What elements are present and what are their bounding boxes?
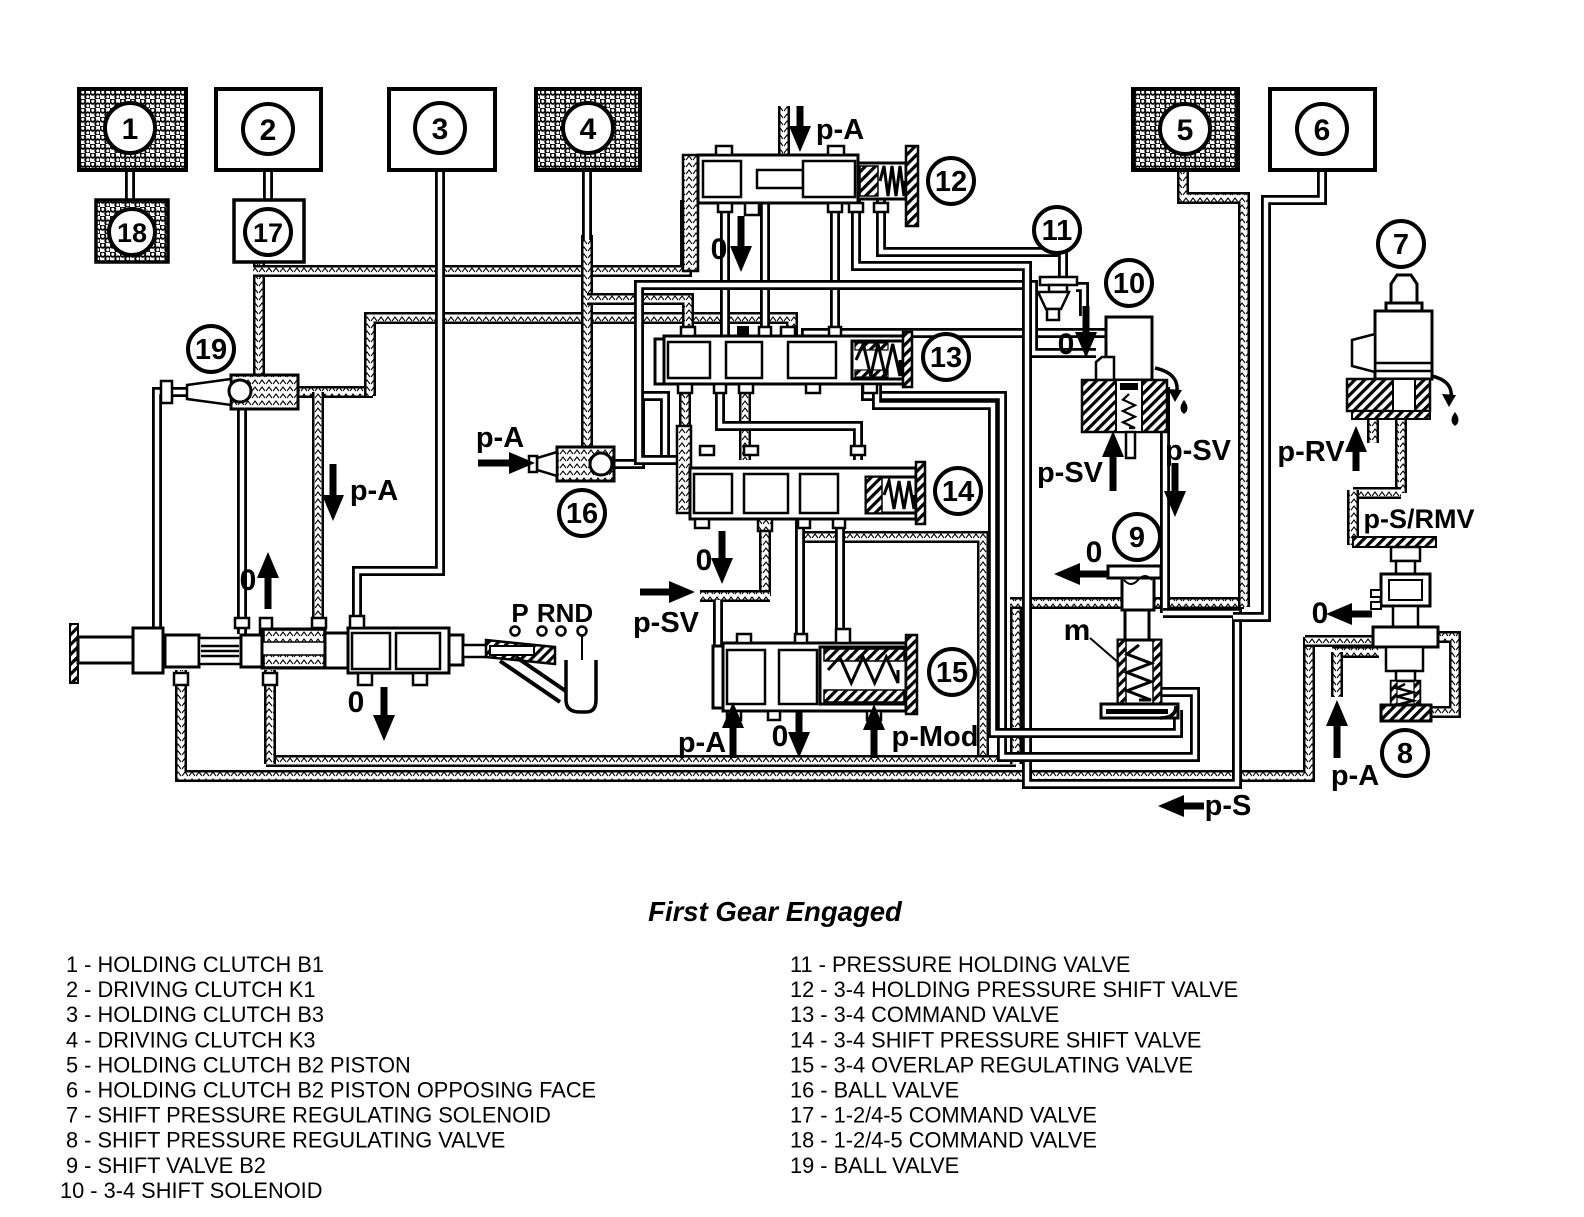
svg-text:2 - DRIVING CLUTCH K1: 2 - DRIVING CLUTCH K1 bbox=[66, 977, 316, 1002]
svg-text:12: 12 bbox=[935, 166, 967, 198]
svg-text:8: 8 bbox=[1397, 738, 1413, 770]
svg-text:0: 0 bbox=[348, 686, 365, 719]
svg-text:7 - SHIFT PRESSURE REGULATING: 7 - SHIFT PRESSURE REGULATING SOLENOID bbox=[66, 1103, 551, 1128]
svg-text:15: 15 bbox=[936, 657, 968, 689]
svg-text:8 - SHIFT PRESSURE REGULATING: 8 - SHIFT PRESSURE REGULATING VALVE bbox=[66, 1128, 505, 1153]
svg-text:15 - 3-4 OVERLAP REGULATING VA: 15 - 3-4 OVERLAP REGULATING VALVE bbox=[790, 1052, 1193, 1077]
svg-text:4 - DRIVING CLUTCH K3: 4 - DRIVING CLUTCH K3 bbox=[66, 1027, 316, 1052]
svg-text:0: 0 bbox=[1312, 597, 1329, 630]
svg-text:13 - 3-4 COMMAND VALVE: 13 - 3-4 COMMAND VALVE bbox=[790, 1002, 1059, 1027]
svg-text:P: P bbox=[511, 598, 528, 628]
svg-text:16 - BALL VALVE: 16 - BALL VALVE bbox=[790, 1078, 959, 1103]
svg-text:p-RV: p-RV bbox=[1277, 436, 1345, 468]
svg-text:p-S/RMV: p-S/RMV bbox=[1364, 504, 1475, 534]
svg-text:0: 0 bbox=[240, 564, 257, 597]
svg-text:p-SV: p-SV bbox=[1037, 457, 1104, 489]
svg-text:0: 0 bbox=[711, 233, 728, 266]
svg-text:18: 18 bbox=[117, 218, 147, 248]
svg-text:19 - BALL VALVE: 19 - BALL VALVE bbox=[790, 1153, 959, 1178]
svg-text:p-A: p-A bbox=[476, 422, 524, 454]
svg-text:p-A: p-A bbox=[678, 727, 726, 759]
svg-text:5: 5 bbox=[1177, 114, 1194, 147]
svg-text:0: 0 bbox=[696, 544, 713, 577]
svg-text:0: 0 bbox=[1086, 536, 1103, 569]
svg-text:3: 3 bbox=[432, 113, 449, 146]
svg-text:First Gear Engaged: First Gear Engaged bbox=[648, 896, 903, 927]
svg-text:6: 6 bbox=[1314, 114, 1331, 147]
svg-text:18 - 1-2/4-5 COMMAND VALVE: 18 - 1-2/4-5 COMMAND VALVE bbox=[790, 1128, 1097, 1153]
svg-text:1: 1 bbox=[122, 113, 139, 146]
svg-text:11: 11 bbox=[1042, 215, 1073, 247]
svg-text:17 - 1-2/4-5 COMMAND VALVE: 17 - 1-2/4-5 COMMAND VALVE bbox=[790, 1103, 1097, 1128]
svg-text:RND: RND bbox=[537, 598, 593, 628]
svg-text:10: 10 bbox=[1113, 268, 1145, 300]
svg-text:p-Mod: p-Mod bbox=[892, 721, 979, 753]
svg-text:1 - HOLDING CLUTCH B1: 1 - HOLDING CLUTCH B1 bbox=[66, 952, 324, 977]
svg-text:9 - SHIFT VALVE B2: 9 - SHIFT VALVE B2 bbox=[66, 1153, 266, 1178]
svg-text:0: 0 bbox=[1058, 328, 1075, 361]
svg-text:5 - HOLDING CLUTCH B2 PISTON: 5 - HOLDING CLUTCH B2 PISTON bbox=[66, 1052, 411, 1077]
svg-text:p-SV: p-SV bbox=[633, 607, 700, 639]
svg-text:14: 14 bbox=[942, 476, 974, 508]
svg-text:3 - HOLDING CLUTCH B3: 3 - HOLDING CLUTCH B3 bbox=[66, 1002, 324, 1027]
svg-text:6 - HOLDING CLUTCH B2 PISTON O: 6 - HOLDING CLUTCH B2 PISTON OPPOSING FA… bbox=[66, 1078, 596, 1103]
svg-text:9: 9 bbox=[1129, 522, 1145, 554]
svg-text:p-SV: p-SV bbox=[1165, 435, 1232, 467]
svg-text:10 - 3-4 SHIFT SOLENOID: 10 - 3-4 SHIFT SOLENOID bbox=[60, 1178, 322, 1203]
svg-text:7: 7 bbox=[1393, 229, 1409, 261]
svg-text:17: 17 bbox=[253, 218, 283, 248]
svg-text:p-A: p-A bbox=[1331, 760, 1379, 792]
svg-text:13: 13 bbox=[930, 342, 962, 374]
svg-text:0: 0 bbox=[772, 720, 789, 753]
svg-text:11 - PRESSURE HOLDING VALVE: 11 - PRESSURE HOLDING VALVE bbox=[790, 952, 1130, 977]
svg-text:p-A: p-A bbox=[350, 475, 398, 507]
svg-text:16: 16 bbox=[566, 498, 598, 530]
svg-text:2: 2 bbox=[260, 114, 277, 147]
svg-text:4: 4 bbox=[580, 113, 597, 146]
svg-text:p-A: p-A bbox=[816, 114, 864, 146]
svg-text:12 - 3-4 HOLDING PRESSURE SHIF: 12 - 3-4 HOLDING PRESSURE SHIFT VALVE bbox=[790, 977, 1238, 1002]
svg-text:14 - 3-4 SHIFT PRESSURE SHIFT: 14 - 3-4 SHIFT PRESSURE SHIFT VALVE bbox=[790, 1027, 1201, 1052]
svg-text:m: m bbox=[1064, 614, 1091, 647]
svg-text:p-S: p-S bbox=[1205, 790, 1252, 822]
svg-text:19: 19 bbox=[195, 334, 227, 366]
